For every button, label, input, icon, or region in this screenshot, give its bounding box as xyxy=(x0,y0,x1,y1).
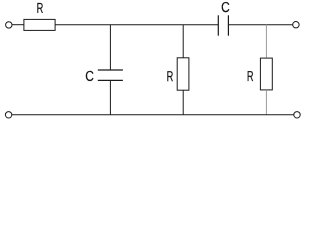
wire R2 branch lower xyxy=(182,90,184,115)
wire R3 branch lower xyxy=(265,90,267,115)
node Vin+ terminal top-left xyxy=(6,22,12,28)
node Vout- terminal bottom-right xyxy=(294,112,300,118)
wire C1 branch upper xyxy=(109,25,111,70)
svg-text:C: C xyxy=(221,0,230,15)
node Vin- terminal bottom-left xyxy=(5,112,11,118)
node Vout+ terminal top-right xyxy=(293,22,299,28)
wire bottom rail xyxy=(12,114,294,116)
resistor R3 (shunt, vertical) xyxy=(260,58,272,90)
capacitor C2 (series, horizontal) plates xyxy=(217,15,219,35)
svg-text:R: R xyxy=(247,68,254,85)
resistor R1 (series, horizontal) xyxy=(24,19,55,30)
wire top rail R1 to C2 xyxy=(55,24,218,26)
svg-text:R: R xyxy=(37,0,44,16)
wire R3 branch upper xyxy=(265,25,267,58)
svg-text:C: C xyxy=(85,68,94,84)
wire R2 branch upper xyxy=(182,25,184,58)
wire C2 to top-right terminal xyxy=(228,24,292,26)
wire top-left terminal to R1 xyxy=(12,24,24,26)
resistor R2 (shunt, vertical) xyxy=(177,58,189,90)
capacitor C1 (shunt, vertical) plates xyxy=(98,69,123,71)
svg-text:R: R xyxy=(167,68,174,85)
wire C1 branch lower xyxy=(109,80,111,114)
